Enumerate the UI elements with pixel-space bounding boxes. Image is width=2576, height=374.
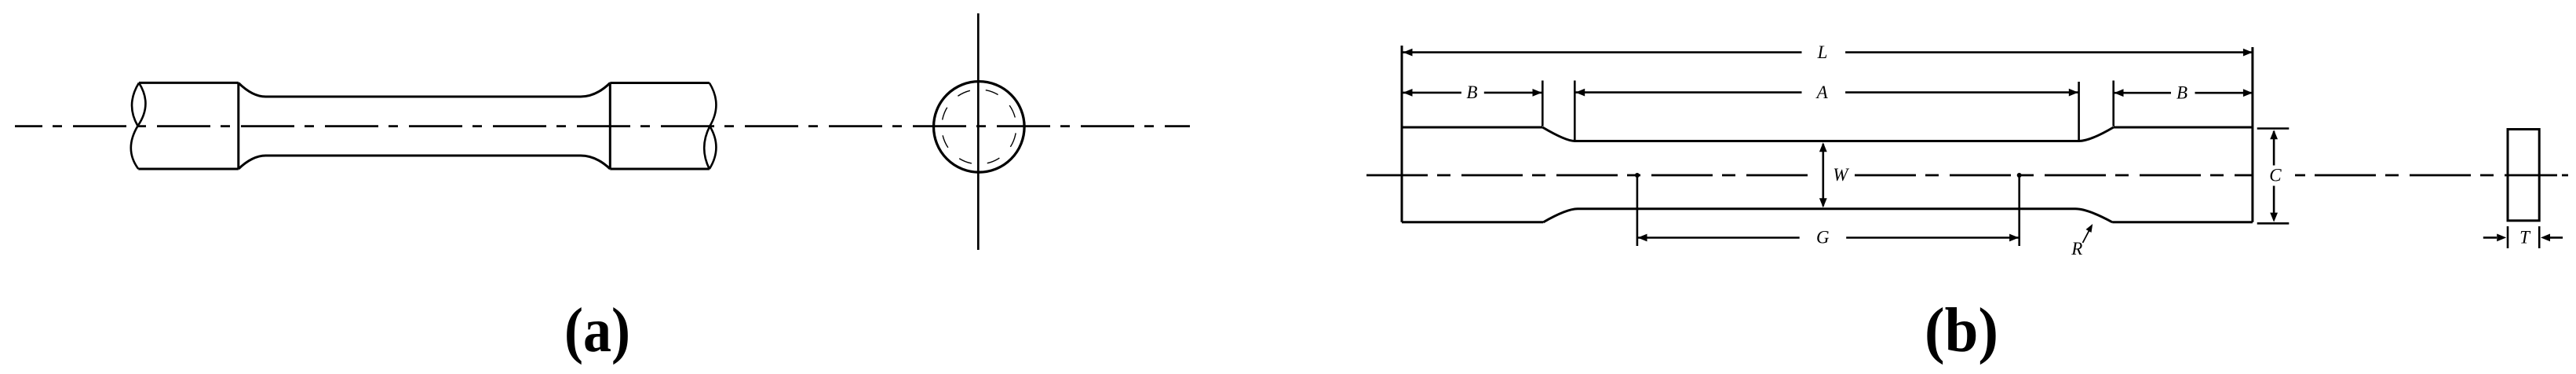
svg-text:C: C bbox=[2269, 165, 2282, 185]
svg-text:(b): (b) bbox=[1925, 296, 1998, 365]
svg-text:R: R bbox=[2071, 239, 2082, 258]
svg-text:G: G bbox=[1816, 228, 1830, 247]
svg-text:L: L bbox=[1817, 42, 1828, 62]
svg-text:B: B bbox=[1466, 82, 1477, 102]
svg-text:T: T bbox=[2519, 228, 2531, 247]
svg-text:(a): (a) bbox=[564, 296, 630, 365]
svg-text:A: A bbox=[1815, 82, 1829, 102]
svg-text:W: W bbox=[1833, 165, 1849, 185]
svg-text:B: B bbox=[2176, 82, 2187, 102]
